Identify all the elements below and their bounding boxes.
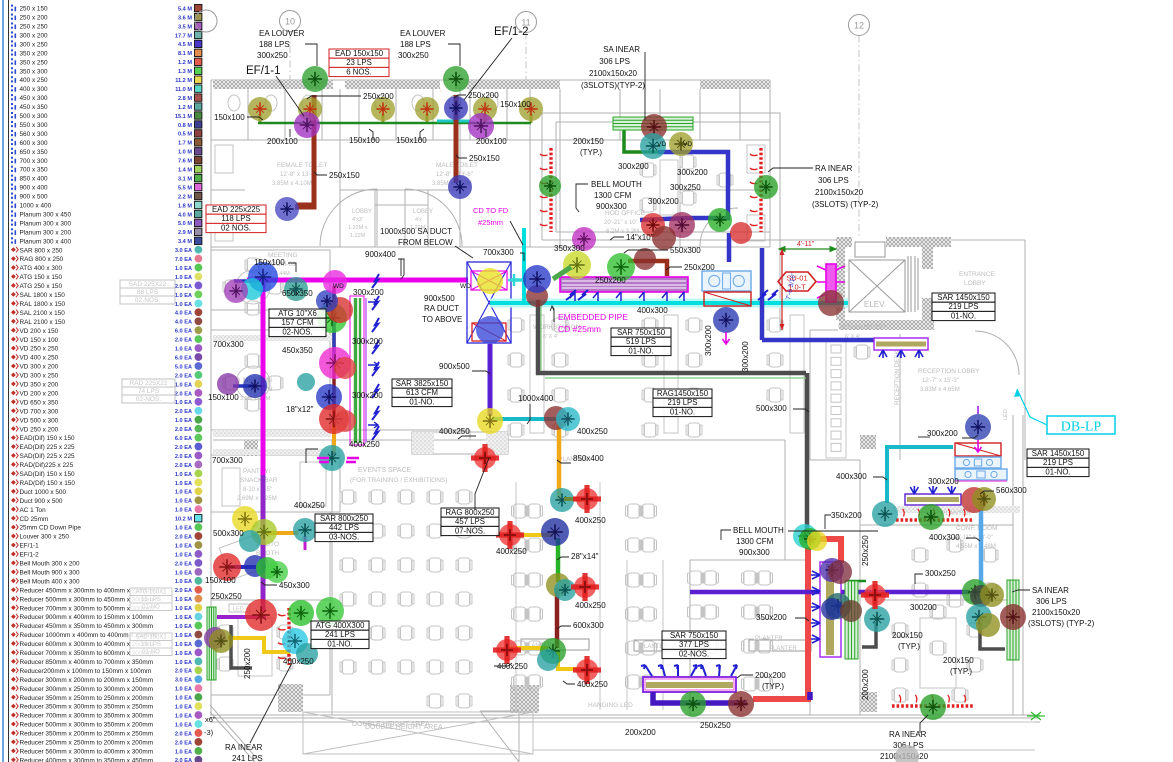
hatched wall elevator top	[836, 237, 951, 247]
svg-text:300x250: 300x250	[670, 183, 701, 192]
svg-text:SAR 800 x 250: SAR 800 x 250	[20, 247, 63, 254]
svg-text:1300 CFM: 1300 CFM	[594, 191, 632, 200]
svg-text:1.0 EA: 1.0 EA	[175, 713, 192, 719]
ATG teal meeting1	[284, 277, 308, 301]
svg-text:PLANTER: PLANTER	[941, 510, 971, 517]
svg-text:4.5 M: 4.5 M	[178, 42, 192, 48]
svg-text:3.85M x 4.10M: 3.85M x 4.10M	[272, 181, 312, 187]
svg-text:2.0 EA: 2.0 EA	[175, 731, 192, 737]
svg-text:Louver 300 x 250: Louver 300 x 250	[20, 534, 70, 541]
svg-text:Reducer 250mm x 250mm to 200mm: Reducer 250mm x 250mm to 200mm x 200mm	[20, 740, 154, 747]
diffuser red booth	[213, 553, 241, 581]
room text planter5	[524, 643, 552, 649]
hatched pillar left-bottom	[278, 684, 303, 712]
svg-text:157 CFM: 157 CFM	[281, 318, 313, 327]
leader EA louver 1	[305, 44, 317, 66]
svg-text:250 x 150: 250 x 150	[20, 6, 49, 13]
svg-text:1.0 EA: 1.0 EA	[175, 472, 192, 478]
diffuser yellowgreen band	[563, 251, 591, 279]
svg-text:Reducer 900mm x 400mm to 150mm: Reducer 900mm x 400mm to 150mm x 100mm	[20, 614, 154, 621]
duct royal hod	[658, 152, 728, 218]
room text hod office	[604, 210, 646, 235]
diffuser blue left top	[316, 290, 338, 312]
svg-text:1000 x 400: 1000 x 400	[20, 203, 52, 210]
svg-text:118 LPS: 118 LPS	[221, 214, 250, 223]
diffuser darkred hodtail	[652, 226, 676, 250]
duct indigo column seg	[332, 322, 336, 358]
svg-text:2.0 EA: 2.0 EA	[175, 669, 192, 675]
diffuser teal booth	[293, 518, 317, 542]
diffuser cyan crimson	[793, 524, 817, 548]
annotation bell mouth conf	[733, 526, 784, 557]
diffuser teal midcol 1	[550, 488, 574, 512]
leader EF/1-1	[276, 76, 304, 116]
svg-text:VD 300 x 200: VD 300 x 200	[20, 364, 59, 371]
svg-text:300x200: 300x200	[928, 477, 959, 486]
svg-text:500x300: 500x300	[213, 529, 244, 538]
svg-text:250x200: 250x200	[468, 91, 499, 100]
room text planter3	[769, 646, 797, 652]
red slot diffuser HOD west	[540, 148, 551, 232]
duct charcoal east leg	[805, 373, 810, 532]
svg-text:560 x 300: 560 x 300	[20, 131, 49, 138]
svg-text:1.0 EA: 1.0 EA	[175, 481, 192, 487]
diffuser green booth1	[256, 557, 278, 579]
svg-text:LOBBY: LOBBY	[964, 280, 986, 287]
diffuser red meeting3	[245, 599, 277, 631]
svg-text:FEMALE TOILET: FEMALE TOILET	[277, 162, 327, 169]
svg-text:SAD 225X22: SAD 225X22	[129, 281, 167, 288]
svg-text:VD 500 x 300: VD 500 x 300	[20, 417, 59, 424]
svg-text:2.9 M: 2.9 M	[178, 230, 192, 236]
planter box B	[634, 640, 694, 651]
svg-text:VD 300 x 250: VD 300 x 250	[20, 373, 59, 380]
svg-text:700 x 300: 700 x 300	[20, 158, 49, 165]
svg-text:400x250: 400x250	[496, 547, 527, 556]
svg-text:350 x 200: 350 x 200	[20, 50, 49, 57]
diffuser teal midcol 2	[554, 579, 576, 601]
svg-text:900x500: 900x500	[439, 362, 470, 371]
svg-text:500 x 300: 500 x 300	[20, 113, 49, 120]
svg-text:CONF. ROOM: CONF. ROOM	[956, 525, 998, 532]
leader 500x300 rec	[793, 409, 809, 412]
duct teal segment toilets	[437, 120, 470, 123]
diffuser blue booth	[244, 555, 266, 577]
svg-text:1.0 EA: 1.0 EA	[175, 696, 192, 702]
meeting room 03b table	[223, 354, 283, 411]
diffuser teal midcol 3	[537, 649, 559, 671]
svg-text:1.0 EA: 1.0 EA	[175, 749, 192, 755]
svg-text:ATG 400 x 300: ATG 400 x 300	[20, 265, 63, 272]
duct brown EA-1 vertical	[295, 95, 314, 207]
svg-text:ATG 250 x 150: ATG 250 x 150	[20, 283, 63, 290]
red supply diffuser conf	[861, 581, 889, 609]
svg-text:400x250: 400x250	[439, 427, 470, 436]
annotation SA INEAR top	[581, 45, 645, 90]
svg-text:1.0 EA: 1.0 EA	[175, 418, 192, 424]
room text workstation1	[533, 324, 581, 340]
svg-text:SAL 1800 x 150: SAL 1800 x 150	[20, 292, 66, 299]
svg-text:PLANTER: PLANTER	[755, 636, 783, 642]
EAD diffuser olive t2	[298, 97, 322, 121]
svg-text:5.0 M: 5.0 M	[178, 221, 192, 227]
duct orange mid down	[557, 422, 562, 500]
svg-text:(3SLOTS) (TYP-2): (3SLOTS) (TYP-2)	[812, 200, 879, 209]
diffuser green booth2	[266, 561, 288, 583]
duct green trim left	[540, 300, 542, 371]
svg-text:1.0 EA: 1.0 EA	[175, 651, 192, 657]
leader EF/1-2	[464, 38, 512, 100]
svg-text:250x150: 250x150	[469, 154, 500, 163]
svg-text:7.0 EA: 7.0 EA	[175, 257, 192, 263]
svg-text:WD: WD	[333, 283, 344, 290]
svg-text:RAG1450x150: RAG1450x150	[657, 389, 709, 398]
stipple band pantry top	[213, 449, 340, 455]
svg-text:VD 200 x 200: VD 200 x 200	[20, 390, 59, 397]
room text workstation2	[838, 324, 886, 340]
diffuser green hod west	[539, 175, 561, 197]
VD darkblue meeting2	[243, 374, 267, 398]
ATG teal meeting2	[297, 373, 315, 391]
magenta arrow above blue entrance	[977, 406, 979, 414]
svg-text:1.2 M: 1.2 M	[178, 105, 192, 111]
diffuser red conf ne	[961, 487, 987, 513]
red slot diffuser left room	[278, 608, 289, 665]
diffuser teal conf s2	[966, 604, 992, 630]
duct violet vertical lower	[261, 475, 266, 612]
svg-text:650x350: 650x350	[282, 289, 313, 298]
hatched wall top-left	[213, 80, 333, 89]
duct charcoal pantry	[231, 625, 252, 668]
elevator shaft	[849, 236, 918, 312]
dimension green arrow	[779, 248, 836, 250]
svg-text:300 x 200: 300 x 200	[20, 32, 49, 39]
svg-text:300x200: 300x200	[352, 337, 383, 346]
svg-text:EF/1-2: EF/1-2	[20, 552, 40, 559]
diffuser teal hod	[640, 133, 666, 159]
cyan cross glyph riser	[508, 274, 520, 286]
svg-text:15.1 M: 15.1 M	[175, 114, 192, 120]
svg-text:RAD 225X22: RAD 225X22	[130, 380, 168, 387]
svg-text:2.0 EA: 2.0 EA	[175, 409, 192, 415]
svg-text:(FOR TRAINING / EXHIBITIONS): (FOR TRAINING / EXHIBITIONS)	[350, 477, 447, 484]
room text planter1	[558, 456, 588, 463]
table EAD 225x225	[206, 205, 266, 233]
svg-text:457 LPS: 457 LPS	[455, 517, 485, 526]
svg-text:150x100: 150x100	[500, 100, 531, 109]
room text meeting1	[262, 252, 298, 277]
svg-text:400x250: 400x250	[349, 440, 380, 449]
svg-text:200x150: 200x150	[892, 631, 923, 640]
diffuser brown cyanline	[526, 285, 548, 307]
svg-text:2.0 EA: 2.0 EA	[175, 463, 192, 469]
diffuser darkred vslot top	[828, 560, 852, 584]
svg-text:Duct 1000 x 500: Duct 1000 x 500	[20, 489, 67, 496]
svg-text:400x250: 400x250	[294, 501, 325, 510]
svg-text:250x250: 250x250	[700, 721, 731, 730]
svg-text:EAD 150x150: EAD 150x150	[335, 49, 384, 58]
linear diffuser mid purple striped	[560, 277, 688, 301]
slot diffuser conf right SA	[1007, 580, 1019, 660]
duct royal hod tail	[640, 218, 688, 220]
svg-text:Reducer 850mm x 400mm to 700mm: Reducer 850mm x 400mm to 700mm x 350mm	[20, 659, 154, 666]
room text pantry	[237, 468, 278, 502]
diffuser cyan meeting3	[282, 628, 308, 654]
reception desk	[831, 345, 841, 353]
svg-text:SAR 750x150: SAR 750x150	[670, 631, 719, 640]
svg-text:350x200: 350x200	[756, 613, 787, 622]
diffuser yellowgreen booth	[251, 519, 277, 545]
svg-text:1000x400: 1000x400	[518, 394, 554, 403]
svg-text:250x250: 250x250	[861, 535, 870, 566]
hatched pillar entrance	[860, 435, 876, 449]
svg-text:3.0 EA: 3.0 EA	[175, 678, 192, 684]
diffuser green hodtail	[708, 208, 732, 232]
leader 560x300	[980, 491, 994, 494]
svg-text:EAD(Dif) 150 x 150: EAD(Dif) 150 x 150	[20, 435, 75, 442]
table SAR 3825x150	[392, 379, 452, 407]
svg-text:1.0 EA: 1.0 EA	[175, 552, 192, 558]
svg-text:700x300: 700x300	[213, 340, 244, 349]
room text planter6	[755, 636, 783, 642]
svg-text:5.4 M: 5.4 M	[178, 6, 192, 12]
svg-text:306 LPS: 306 LPS	[818, 176, 849, 185]
planter box A	[521, 639, 589, 650]
svg-text:700 x 350: 700 x 350	[20, 167, 49, 174]
svg-text:560x300: 560x300	[996, 486, 1027, 495]
svg-text:2.69M x 2.25M: 2.69M x 2.25M	[237, 496, 277, 502]
svg-text:900x500: 900x500	[424, 294, 455, 303]
svg-text:WORKSTATION: WORKSTATION	[838, 324, 886, 331]
table ATG 400X300	[311, 621, 369, 649]
svg-text:RAL 2100 x 150: RAL 2100 x 150	[20, 319, 66, 326]
svg-text:4.0 M: 4.0 M	[178, 212, 192, 218]
room text conf room	[953, 525, 998, 550]
svg-text:Bell Mouth 900 x 300: Bell Mouth 900 x 300	[20, 569, 80, 576]
svg-text:02-NOS.: 02-NOS.	[282, 327, 312, 336]
leader DB leader	[918, 436, 930, 438]
stipple band meeting mid	[213, 335, 333, 341]
duct violet booth stub	[304, 536, 307, 550]
svg-text:400x250: 400x250	[575, 516, 606, 525]
svg-text:241 LPS: 241 LPS	[325, 630, 355, 639]
green double duct vertical	[350, 296, 366, 445]
svg-text:Reducer 350mm x 200mm to 250mm: Reducer 350mm x 200mm to 250mm x 250mm	[20, 731, 154, 738]
EAD diffuser olive t5	[473, 97, 497, 121]
duct crimson west leg	[753, 547, 808, 699]
svg-text:200x200: 200x200	[625, 728, 656, 737]
svg-text:12'-7" x 15'-3": 12'-7" x 15'-3"	[922, 378, 959, 384]
linear diffuser reception	[874, 338, 928, 358]
svg-text:150x100: 150x100	[208, 393, 239, 402]
svg-text:EF/1-2: EF/1-2	[494, 26, 529, 38]
svg-text:350 x 300: 350 x 300	[20, 68, 49, 75]
svg-text:250x150: 250x150	[329, 171, 360, 180]
svg-text:RAD(Dif)225 x 225: RAD(Dif)225 x 225	[20, 462, 74, 469]
duct violet riser-down	[488, 344, 493, 416]
stair ramp bottom	[210, 705, 519, 762]
svg-text:450 x 300: 450 x 300	[20, 95, 49, 102]
stipple wall conf north	[893, 506, 1020, 513]
svg-text:4'x: 4'x	[415, 217, 422, 223]
diffuser magenta left	[319, 347, 351, 379]
svg-text:306 LPS: 306 LPS	[1036, 597, 1067, 606]
svg-text:12: 12	[854, 21, 864, 31]
leader 1000x400	[527, 404, 530, 424]
svg-text:02 NOS.: 02 NOS.	[221, 223, 251, 232]
svg-text:6.0 EA: 6.0 EA	[175, 436, 192, 442]
hatched wall elevator right-bottom	[922, 298, 933, 320]
VD purple meeting	[224, 279, 248, 303]
EAD blue toilet low1	[275, 197, 299, 221]
diffuser darkblue midcol	[541, 518, 569, 546]
svg-text:SAL 2100 x 150: SAL 2100 x 150	[20, 310, 66, 317]
fan coil unit entrance 1	[955, 457, 1001, 468]
svg-text:5.5 M: 5.5 M	[178, 185, 192, 191]
annotation RA INEAR left-bottom	[225, 743, 263, 762]
olive stub mid1	[564, 497, 584, 501]
diffuser green conf mid	[962, 579, 988, 605]
room text events space	[350, 467, 447, 484]
diffuser teal booth2	[239, 530, 261, 552]
leader 200x200 south	[737, 675, 753, 678]
svg-text:1.0 EA: 1.0 EA	[175, 705, 192, 711]
svg-text:300x250: 300x250	[398, 51, 429, 60]
ghost table SAD 225X225	[120, 280, 175, 304]
svg-text:1000x500 SA DUCT: 1000x500 SA DUCT	[380, 227, 452, 236]
duct magenta horizontal main	[247, 278, 468, 283]
table SAR 1450x150 right	[1027, 449, 1089, 477]
svg-text:EVENTS SPACE: EVENTS SPACE	[358, 467, 411, 474]
svg-text:300x200: 300x200	[352, 391, 383, 400]
svg-text:LOBBY: LOBBY	[352, 209, 372, 215]
diffuser green hod east	[754, 175, 778, 199]
svg-text:VD 250 x 250: VD 250 x 250	[20, 346, 59, 353]
architecture walls group	[210, 80, 1040, 722]
planter events-top	[412, 432, 508, 454]
red supply diffuser mid e3	[573, 656, 601, 684]
leader 250x200 hod	[666, 267, 682, 270]
red supply diffuser mid e1	[573, 485, 601, 513]
svg-text:02-NOS.: 02-NOS.	[679, 649, 709, 658]
svg-text:0.5 M: 0.5 M	[178, 132, 192, 138]
svg-text:1.0 EA: 1.0 EA	[175, 687, 192, 693]
conference mid chairs	[914, 548, 926, 562]
svg-text:400x250: 400x250	[497, 662, 528, 671]
legend panel	[3, 0, 202, 762]
hatched wall elevator bottom	[839, 320, 934, 330]
duct yellow south elbow	[558, 652, 585, 669]
svg-text:Reducer 700mm x 300mm to 350mm: Reducer 700mm x 300mm to 350mm x 300mm	[20, 713, 154, 720]
svg-text:2100x150x20: 2100x150x20	[815, 188, 864, 197]
svg-text:400x250: 400x250	[283, 657, 314, 666]
duct green hod elbow	[624, 130, 660, 152]
svg-text:ATG 150 x 150: ATG 150 x 150	[20, 274, 63, 281]
leader 400x250 nw	[306, 449, 318, 463]
svg-text:2.0 EA: 2.0 EA	[175, 373, 192, 379]
svg-text:550x300: 550x300	[670, 246, 701, 255]
red slot diffuser conf bottom	[892, 695, 973, 706]
svg-text:RECEPTION LOBBY: RECEPTION LOBBY	[918, 368, 980, 375]
svg-text:1.0 EA: 1.0 EA	[175, 400, 192, 406]
svg-text:RAG 800x250: RAG 800x250	[446, 508, 496, 517]
svg-text:01-NO.: 01-NO.	[670, 407, 695, 416]
duct darkgreen conf	[846, 580, 866, 583]
svg-text:Planum 300 x 300: Planum 300 x 300	[20, 220, 72, 227]
svg-text:1.0 EA: 1.0 EA	[175, 347, 192, 353]
diffuser yellow booth	[232, 506, 258, 532]
svg-text:400x300: 400x300	[929, 533, 960, 542]
dimension labels group	[205, 91, 1027, 737]
magenta wings teal diffuser	[317, 458, 359, 462]
svg-text:2.0 EA: 2.0 EA	[175, 534, 192, 540]
annotation RA INEAR bottom	[880, 730, 929, 761]
svg-text:01-NO: 01-NO	[142, 604, 160, 610]
table RAG 800x250	[441, 508, 499, 536]
leader 300x250 conf	[915, 574, 923, 584]
svg-text:150x100: 150x100	[214, 113, 245, 122]
diffuser green conf bottom	[920, 694, 946, 720]
AC red box entrance	[955, 443, 1001, 456]
svg-text:SAD(Dif) 225 x 225: SAD(Dif) 225 x 225	[20, 453, 75, 460]
svg-text:1.0 EA: 1.0 EA	[175, 624, 192, 630]
diffuser teal vslot bot	[825, 593, 851, 619]
svg-text:BELL MOUTH: BELL MOUTH	[733, 526, 784, 535]
svg-text:850 x 400: 850 x 400	[20, 176, 49, 183]
diffuser darkred band	[634, 248, 656, 270]
table SAR 750x150 mid	[611, 328, 671, 356]
room text meeting2	[240, 377, 273, 402]
svg-text:SA INEAR: SA INEAR	[603, 45, 640, 54]
planter stipple right	[486, 432, 508, 454]
furniture group	[215, 95, 998, 710]
svg-text:BOOTH: BOOTH	[256, 550, 279, 557]
svg-text:SAR 1450x150: SAR 1450x150	[937, 293, 990, 302]
svg-text:CD TO FD: CD TO FD	[473, 206, 509, 215]
svg-text:EF/1-1: EF/1-1	[246, 65, 281, 77]
svg-text:219 LPS: 219 LPS	[949, 302, 979, 311]
events space chairs	[342, 490, 354, 504]
svg-text:1.3 M: 1.3 M	[178, 69, 192, 75]
svg-text:VD 700 x 300: VD 700 x 300	[20, 408, 59, 415]
table SAR 750x150 south	[662, 631, 726, 659]
diffuser red left top	[327, 297, 353, 323]
svg-text:01-NO: 01-NO	[142, 649, 160, 655]
red supply diffuser mid e2	[571, 573, 599, 601]
svg-text:ENTRANCE: ENTRANCE	[959, 271, 995, 278]
leader CD TO FD	[510, 221, 523, 245]
red slot diffuser HOD east	[750, 148, 761, 232]
svg-text:200x150: 200x150	[573, 137, 604, 146]
svg-text:2100x150x20: 2100x150x20	[589, 69, 638, 78]
red slot diffuser conf top	[896, 509, 972, 520]
magenta diffuser elevator	[817, 264, 845, 302]
svg-text:7.6 M: 7.6 M	[178, 159, 192, 165]
diffuser darkblue reception	[713, 307, 739, 333]
duct royal reception horiz	[762, 338, 900, 343]
svg-text:ELEV.: ELEV.	[864, 300, 886, 309]
svg-text:SAD(Dif) 150 x 150: SAD(Dif) 150 x 150	[20, 471, 75, 478]
toilet fixtures	[228, 95, 240, 111]
duct orange left col bottom	[332, 425, 336, 452]
slot diffuser HOD top green	[613, 117, 693, 130]
AC red box HOD	[704, 292, 751, 306]
pantry furniture	[222, 468, 240, 506]
svg-text:250x200: 250x200	[363, 92, 394, 101]
svg-text:700x300: 700x300	[212, 456, 243, 465]
svg-text:400 x 250: 400 x 250	[20, 77, 49, 84]
room text entrance lobby	[959, 271, 995, 287]
